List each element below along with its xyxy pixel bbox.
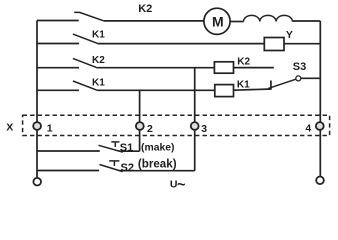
svg-text:S3: S3 <box>293 61 306 73</box>
svg-text:(make): (make) <box>141 142 175 153</box>
svg-text:1: 1 <box>47 123 53 135</box>
svg-text:K1: K1 <box>237 80 250 91</box>
svg-text:2: 2 <box>147 123 153 135</box>
svg-text:S2: S2 <box>121 162 134 174</box>
svg-text:K1: K1 <box>92 77 105 88</box>
svg-text:4: 4 <box>305 123 311 135</box>
svg-text:~: ~ <box>177 177 185 190</box>
svg-text:Y: Y <box>286 29 293 41</box>
svg-text:M: M <box>212 13 224 29</box>
svg-text:K2: K2 <box>237 57 250 68</box>
svg-text:K2: K2 <box>138 3 152 15</box>
svg-text:S1: S1 <box>120 142 133 154</box>
svg-text:K2: K2 <box>92 55 105 66</box>
svg-text:X: X <box>6 121 13 133</box>
svg-text:(break): (break) <box>138 158 177 171</box>
svg-text:K1: K1 <box>92 30 105 41</box>
svg-text:3: 3 <box>201 123 207 135</box>
